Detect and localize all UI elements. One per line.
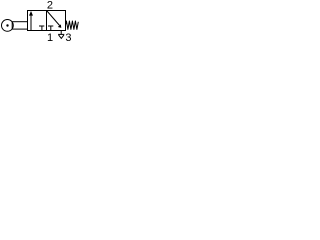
left square flow line 1->2 [30,15,32,30]
roller pivot dot [6,24,8,26]
right square flow line 2->3 [47,11,60,26]
blocked port T right square [48,26,53,30]
position squares divider [46,11,48,31]
left square arrowhead up [29,11,33,16]
tappet stem rectangle [12,22,27,29]
spring [66,21,79,29]
svg-text:3: 3 [65,32,71,41]
blocked port T left square [39,26,44,30]
svg-text:2: 2 [47,0,53,12]
valve body outline [28,11,66,31]
exhaust bar [58,33,64,35]
right square arrowhead down [58,24,62,28]
roller circle [2,20,14,32]
3/2-way roller valve with spring return (pneumatic schematic) [0,0,79,41]
svg-text:1: 1 [47,32,53,41]
exhaust triangle [59,35,64,39]
exhaust port 3 stem [60,31,62,35]
